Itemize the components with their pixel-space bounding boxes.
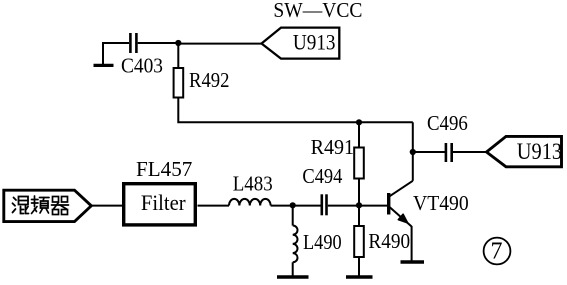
wire (ground to C403) <box>102 42 129 44</box>
svg-text:7: 7 <box>491 239 503 265</box>
wire (R491 bottom to base node) <box>358 179 360 206</box>
CJK text 混 <box>13 197 29 214</box>
figure number 7 (circled) <box>484 238 511 265</box>
ground (L490) <box>277 275 309 278</box>
svg-text:U913: U913 <box>293 29 336 54</box>
node D (junction dot, L490 tap) <box>290 202 296 208</box>
wire (collector vertical drop) <box>412 122 414 181</box>
wire (C403 to node A) <box>138 42 178 44</box>
wire (base node to transistor base) <box>359 205 388 207</box>
capacitor C496 <box>427 111 468 162</box>
wire (node A down to R492) <box>177 43 179 68</box>
CJK text 器 <box>52 197 69 215</box>
wire (filter to L483) <box>198 205 230 207</box>
wire (node D to C494) <box>293 205 321 207</box>
wire (L483 to node D) <box>271 205 293 207</box>
node E (junction dot, base node) <box>356 202 362 208</box>
node B (junction dot at R491 top) <box>356 119 362 125</box>
capacitor C494 <box>302 164 342 215</box>
ground (R490) <box>346 275 373 278</box>
filter FL457 box <box>124 157 196 225</box>
wire (R492 bottom, corner, to collector drop) <box>178 98 412 123</box>
wire (node C to C496) <box>413 151 445 153</box>
CJK text 频 <box>32 196 50 214</box>
svg-text:Filter: Filter <box>141 190 186 215</box>
inductor L483 <box>229 172 273 206</box>
wire (node B down to R491) <box>358 122 360 147</box>
svg-text:R492: R492 <box>189 68 230 92</box>
svg-text:SW—VCC: SW—VCC <box>273 0 362 22</box>
svg-text:VT490: VT490 <box>413 191 469 215</box>
wire (L490 to ground) <box>292 262 294 275</box>
wire (R490 to ground) <box>358 257 360 276</box>
resistor R492 <box>174 68 230 98</box>
svg-text:U913: U913 <box>517 139 562 164</box>
node A (junction dot at C403/R492) <box>175 40 181 46</box>
svg-text:C494: C494 <box>302 164 342 188</box>
connector U913 (right, IF output) <box>487 136 563 166</box>
wire (mixer tag to filter) <box>91 205 122 207</box>
wire (C496 to right U913 tag) <box>453 151 486 153</box>
svg-text:L483: L483 <box>233 172 273 196</box>
resistor R490 <box>354 226 410 257</box>
svg-text:R491: R491 <box>311 135 355 159</box>
ground (top-left, C403 return) <box>94 44 114 65</box>
svg-text:R490: R490 <box>368 229 410 253</box>
svg-text:C496: C496 <box>427 111 468 135</box>
svg-text:FL457: FL457 <box>136 157 193 181</box>
wire (emitter down) <box>411 226 413 261</box>
connector 混频器 (mixer, left) <box>4 190 92 221</box>
svg-text:C403: C403 <box>121 54 163 78</box>
node C (junction dot, collector / C496 tap) <box>410 149 416 155</box>
wire (node D down to L490) <box>292 205 294 225</box>
inductor L490 <box>293 226 342 263</box>
connector U913 (top, SW-VCC feed) <box>262 28 340 59</box>
ground (emitter) <box>401 260 425 263</box>
capacitor C403 <box>121 33 163 78</box>
svg-text:L490: L490 <box>303 230 342 254</box>
wire (C494 to base node) <box>328 205 359 207</box>
transistor VT490 <box>389 181 469 227</box>
resistor R491 <box>311 135 364 179</box>
wire (node A to U913 tag) <box>178 43 261 45</box>
wire (base node down to R490) <box>358 205 360 226</box>
